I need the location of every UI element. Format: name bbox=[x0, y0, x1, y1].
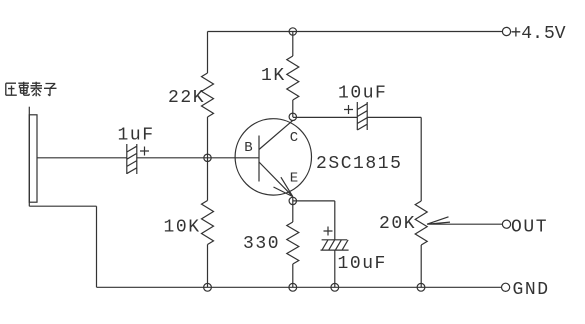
wire cap to right vertical bbox=[367, 117, 421, 201]
wire top supply rail bbox=[208, 31, 503, 33]
label kanji 圧電素子 piezo element bbox=[6, 82, 57, 96]
wire 20K bottom lead to ground rail bbox=[420, 245, 422, 287]
svg-text:2SC1815: 2SC1815 bbox=[316, 154, 402, 174]
svg-text:5V: 5V bbox=[544, 24, 566, 44]
svg-text:1K: 1K bbox=[261, 66, 286, 86]
resistor R1 22K bbox=[202, 73, 214, 117]
kanji 電 bbox=[18, 82, 29, 95]
node junction ground at 20K bbox=[417, 283, 425, 291]
plus polarity mark C2 bbox=[344, 105, 353, 114]
wire 1K bottom lead to collector node bbox=[292, 100, 294, 117]
resistor R3 1K bbox=[287, 56, 299, 100]
svg-text:OUT: OUT bbox=[511, 218, 548, 238]
svg-text:330: 330 bbox=[243, 234, 280, 254]
wire 1K top lead bbox=[292, 32, 294, 57]
svg-text:1uF: 1uF bbox=[118, 126, 155, 146]
terminal +4.5V bbox=[502, 27, 510, 35]
transistor emitter line with arrow bbox=[259, 162, 293, 197]
wire 330 bottom lead to ground rail bbox=[292, 264, 294, 287]
svg-text:+4.: +4. bbox=[511, 24, 543, 44]
svg-text:GND: GND bbox=[513, 280, 550, 300]
wire emitter to bypass cap bbox=[293, 201, 335, 240]
svg-text:10K: 10K bbox=[164, 218, 201, 238]
transistor collector line bbox=[259, 120, 293, 149]
wiper arrow of potentiometer to OUT bbox=[427, 217, 502, 224]
svg-text:10uF: 10uF bbox=[338, 84, 387, 104]
potentiometer VR1 20K bbox=[415, 201, 427, 245]
plus polarity mark C1 bbox=[140, 147, 149, 156]
svg-text:B: B bbox=[244, 140, 252, 156]
kanji 圧 bbox=[6, 83, 17, 95]
wire bypass cap to ground rail bbox=[334, 250, 336, 287]
ground rail wire bbox=[97, 286, 502, 288]
svg-text:C: C bbox=[290, 130, 298, 146]
plus polarity mark C3 bbox=[324, 227, 333, 236]
transistor Q1 2SC1815 circle bbox=[235, 119, 311, 195]
resistor R2 10K bbox=[202, 201, 214, 245]
node junction collector bbox=[289, 113, 296, 120]
terminal OUT bbox=[502, 220, 510, 228]
wire 22K bottom lead to base node bbox=[207, 117, 209, 201]
capacitor C2 10uF electrolytic coupling bbox=[357, 102, 367, 130]
svg-text:E: E bbox=[290, 170, 298, 186]
kanji 子 bbox=[44, 84, 57, 96]
svg-text:10uF: 10uF bbox=[338, 254, 387, 274]
kanji 素 bbox=[31, 82, 43, 96]
wire piezo bottom return bbox=[29, 206, 96, 287]
piezo element body bbox=[29, 115, 37, 202]
wire piezo to 1uF cap bbox=[37, 157, 127, 159]
wire collector to coupling cap bbox=[293, 116, 358, 118]
wire 22K top lead from rail bbox=[207, 32, 209, 74]
node junction ground at 10K bbox=[204, 283, 212, 291]
node junction emitter bbox=[289, 197, 296, 204]
capacitor C3 10uF electrolytic bypass bbox=[321, 240, 349, 250]
capacitor C1 1uF electrolytic bbox=[127, 144, 137, 174]
terminal GND bbox=[502, 283, 510, 291]
wire 1uF cap to transistor base bbox=[137, 157, 259, 159]
wire 10K bottom lead to ground rail bbox=[207, 245, 209, 288]
node junction base divider bbox=[204, 154, 211, 161]
node junction ground at 330 bbox=[289, 283, 297, 291]
svg-text:20K: 20K bbox=[379, 214, 416, 234]
resistor R4 330 bbox=[287, 222, 299, 264]
piezo element left electrode bbox=[28, 107, 30, 207]
node junction top rail bbox=[289, 28, 296, 35]
transistor base bar bbox=[258, 136, 260, 182]
svg-text:22K: 22K bbox=[168, 88, 205, 108]
wire emitter down to 330 bbox=[292, 197, 294, 222]
node junction ground at bypass cap bbox=[331, 283, 339, 291]
